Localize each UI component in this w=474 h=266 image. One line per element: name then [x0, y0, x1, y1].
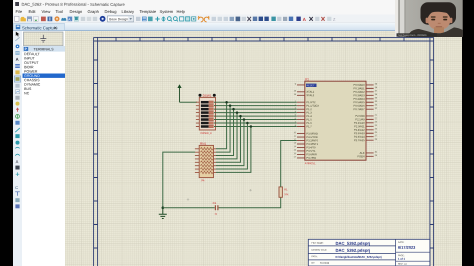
svg-text:XTAL2: XTAL2	[306, 93, 314, 97]
eyes	[431, 19, 435, 21]
brows	[431, 16, 436, 17]
svg-text:P3.3/INT1: P3.3/INT1	[306, 142, 318, 146]
svg-text:DAC_5262 - Proteus 8 Professio: DAC_5262 - Proteus 8 Professional - Sche…	[21, 2, 125, 7]
caption	[397, 33, 438, 36]
mouth	[436, 26, 443, 27]
svg-text:Tool: Tool	[55, 9, 63, 14]
svg-text:Design: Design	[69, 9, 82, 14]
power terminal VCC arrow	[177, 84, 181, 102]
wire ground to C1	[163, 207, 215, 209]
svg-text:A: A	[16, 159, 19, 164]
bangs	[427, 4, 451, 14]
schematic canvas	[65, 31, 462, 266]
wire RN1 common to ground net	[163, 152, 195, 208]
svg-text:Tran Quang Khanh - 20203599: Tran Quang Khanh - 20203599	[398, 34, 428, 37]
dip switch DSW1	[196, 94, 216, 135]
wire C1 to R1 corner	[219, 197, 281, 207]
svg-text:P1.2: P1.2	[306, 107, 312, 111]
svg-text:PATH:: PATH:	[311, 255, 318, 258]
svg-text:C1: C1	[213, 201, 217, 205]
svg-text:PSEN: PSEN	[357, 154, 364, 158]
svg-text:P0.5/AD5: P0.5/AD5	[353, 100, 365, 104]
svg-text:P0.7/AD7: P0.7/AD7	[353, 107, 365, 111]
svg-text:Debug: Debug	[104, 9, 117, 14]
left pin labels	[306, 90, 319, 160]
svg-text:TERMINALS: TERMINALS	[33, 47, 54, 51]
svg-text:P3.7/RD: P3.7/RD	[306, 156, 316, 160]
svg-text:1 of 1: 1 of 1	[398, 257, 406, 261]
title bar	[13, 0, 462, 8]
svg-text:R1: R1	[284, 187, 288, 191]
svg-text:P2.2/A10: P2.2/A10	[354, 121, 365, 125]
resistor R1	[279, 187, 289, 197]
svg-text:P2.3/A11: P2.3/A11	[354, 124, 365, 128]
RESET highlighted label	[306, 84, 317, 87]
svg-text:✕: ✕	[53, 25, 57, 30]
svg-text:File: File	[15, 9, 22, 14]
shoulders	[406, 27, 463, 37]
capacitor C1	[213, 201, 218, 216]
svg-text:P2.5/A13: P2.5/A13	[354, 131, 365, 135]
svg-text:P1.0/T2: P1.0/T2	[306, 100, 316, 104]
svg-text:AT89C51: AT89C51	[305, 161, 316, 165]
svg-text:P3.6/WR: P3.6/WR	[306, 152, 317, 156]
menu bar	[13, 8, 462, 15]
svg-text:P1.6: P1.6	[306, 121, 312, 125]
left pin stubs	[297, 85, 305, 158]
svg-text:6/17/2023: 6/17/2023	[398, 245, 416, 250]
svg-text:XTAL1: XTAL1	[306, 90, 314, 94]
svg-text:Edit: Edit	[28, 9, 36, 14]
svg-text:PAGE:: PAGE:	[398, 254, 405, 257]
ears	[426, 18, 429, 24]
MCU U1 AT89C51	[294, 77, 378, 165]
svg-text:P3.4/T0: P3.4/T0	[306, 145, 316, 149]
face	[428, 10, 451, 30]
svg-text:P2.6/A14: P2.6/A14	[354, 135, 365, 139]
pin numbers right	[375, 84, 378, 157]
junction dot ground net	[162, 206, 165, 209]
right pin labels	[353, 83, 365, 158]
title block	[308, 239, 430, 266]
svg-text:C: C	[15, 185, 18, 190]
svg-text:DAC_5262.pdsprj: DAC_5262.pdsprj	[335, 241, 370, 246]
svg-text:Template: Template	[139, 9, 156, 14]
pin numbers left	[294, 84, 297, 159]
sheet border left	[94, 37, 434, 266]
svg-text:Library: Library	[121, 9, 134, 14]
sheet border top	[94, 37, 434, 41]
svg-text:P0.3/AD3: P0.3/AD3	[354, 93, 366, 97]
svg-text:BY:: BY:	[311, 263, 315, 265]
svg-text:Help: Help	[176, 9, 185, 14]
junction dots	[225, 101, 252, 128]
bus wires DSW1 to U1 P1.0-P1.7	[214, 102, 297, 126]
main toolbar	[13, 15, 462, 24]
svg-text:NC: NC	[24, 91, 30, 95]
svg-text:DESIGN TITLE:: DESIGN TITLE:	[311, 250, 327, 252]
svg-text:P0.0/AD0: P0.0/AD0	[354, 83, 366, 87]
svg-text:DAC_5262.pdsprj: DAC_5262.pdsprj	[335, 248, 370, 253]
svg-text:Graph: Graph	[87, 9, 99, 14]
svg-text:P0.2/AD2: P0.2/AD2	[354, 90, 366, 94]
svg-text:FILE NAME:: FILE NAME:	[311, 242, 324, 245]
resistor network RN1	[195, 142, 216, 182]
svg-text:RESET: RESET	[307, 84, 316, 87]
svg-text:P2.7/A15: P2.7/A15	[354, 138, 365, 142]
svg-text:P3.5/T1: P3.5/T1	[306, 149, 316, 153]
svg-text:View: View	[41, 9, 50, 14]
stair branches to RN1	[216, 102, 251, 172]
svg-text:System: System	[159, 9, 173, 14]
ground symbol	[159, 208, 167, 219]
svg-text:P1.1/T2EX: P1.1/T2EX	[306, 104, 319, 108]
svg-text:Base Design: Base Design	[109, 17, 128, 21]
wire power to DSW1 pin1	[180, 101, 198, 103]
nose	[438, 23, 441, 24]
svg-text:P2.0/A8: P2.0/A8	[355, 114, 365, 118]
neck	[434, 27, 444, 33]
svg-text:P0.6/AD6: P0.6/AD6	[353, 104, 365, 108]
TERMINALS panel	[22, 31, 65, 266]
svg-text:P1.4: P1.4	[306, 114, 312, 118]
svg-text:D:\tlangki\kumstal\DAC_5262.pd: D:\tlangki\kumstal\DAC_5262.pdsprj	[335, 255, 381, 259]
webcam overlay	[395, 0, 463, 37]
svg-text:KU18038: KU18038	[320, 263, 330, 265]
sheet border right	[430, 37, 434, 266]
tab bar	[13, 23, 462, 31]
right pin stubs	[366, 85, 374, 156]
svg-text:A: A	[16, 57, 19, 62]
svg-text:DATE:: DATE:	[398, 241, 405, 244]
sheet marker dots	[187, 198, 189, 200]
left mode toolbar	[13, 31, 22, 266]
hair	[421, 2, 457, 25]
svg-text:P3.0/RXD: P3.0/RXD	[306, 131, 318, 135]
svg-text:P1.3: P1.3	[306, 110, 312, 114]
svg-text:P3.2/INT0: P3.2/INT0	[306, 138, 318, 142]
svg-text:P1.7: P1.7	[306, 124, 312, 128]
wire R1 up to U1 P3.2	[281, 141, 297, 187]
svg-text:REV: 1.0: REV: 1.0	[398, 264, 407, 266]
svg-text:DIPSW_8: DIPSW_8	[200, 132, 212, 135]
